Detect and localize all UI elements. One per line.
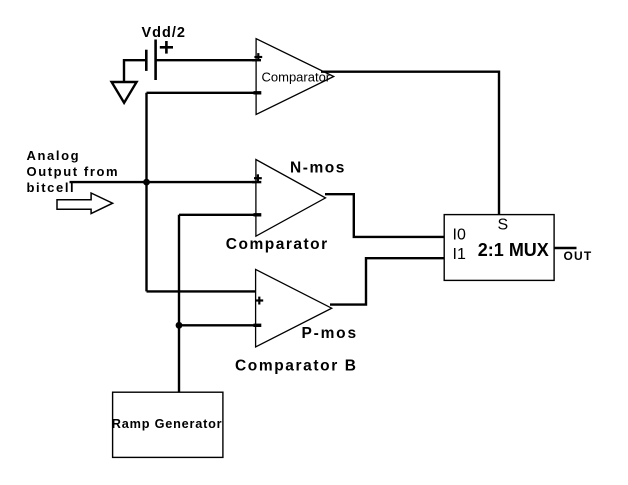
svg-text:Output from: Output from <box>27 164 120 179</box>
svg-text:bitcell: bitcell <box>27 180 76 195</box>
plus sign U2 input <box>254 174 262 182</box>
wire stub U2 plus input <box>252 181 261 183</box>
wire battery positive to comparator U1 plus input <box>156 59 261 61</box>
battery V1 <box>146 40 155 81</box>
svg-text:Comparator: Comparator <box>262 70 331 85</box>
wire left bus vertical <box>145 93 147 292</box>
input arrow symbol <box>57 193 113 214</box>
wire U2 output to MUX I0 <box>325 194 444 237</box>
ground <box>112 82 137 103</box>
svg-text:I0: I0 <box>453 226 466 243</box>
junction node bus2 / P-mos minus input <box>176 322 183 329</box>
wire left bus to U1 minus input <box>147 92 262 94</box>
wire stub U1 plus input <box>252 59 261 61</box>
wire bus2 to U3 minus input <box>179 324 261 326</box>
battery V1 positive sign <box>160 41 173 54</box>
svg-text:Analog: Analog <box>27 148 81 163</box>
svg-text:Vdd/2: Vdd/2 <box>142 25 186 41</box>
svg-text:S: S <box>498 217 509 234</box>
mux M1 2:1 MUX <box>444 215 554 281</box>
wire bus2 to U2 minus input <box>179 214 261 216</box>
svg-text:P-mos: P-mos <box>302 325 358 342</box>
plus sign U1 input <box>254 53 262 61</box>
ramp generator block <box>112 392 223 457</box>
wire bus2 vertical to ramp generator <box>178 215 180 392</box>
op-amp U2 N-mos comparator <box>226 159 346 253</box>
junction node analog input / left bus <box>143 179 150 186</box>
wire left bus to P-mos plus input <box>147 290 259 292</box>
wire MUX output <box>554 247 576 249</box>
minus tick U1 input <box>254 91 262 94</box>
wire U1 output to MUX select S <box>321 72 499 215</box>
wire U3 output to MUX I1 <box>330 258 444 304</box>
wire battery negative to ground <box>124 60 146 82</box>
svg-text:Comparator: Comparator <box>226 236 329 253</box>
label analog input <box>27 148 120 195</box>
svg-text:Ramp Generator: Ramp Generator <box>112 417 223 431</box>
op-amp U3 P-mos comparator <box>235 269 358 374</box>
svg-text:N-mos: N-mos <box>290 159 346 176</box>
wire analog input to N-mos plus input <box>70 181 262 183</box>
op-amp U1 top comparator <box>256 39 334 115</box>
minus tick U3 input <box>254 324 262 327</box>
svg-text:2:1 MUX: 2:1 MUX <box>478 240 549 260</box>
minus tick U2 input <box>254 213 262 216</box>
svg-text:OUT: OUT <box>564 249 593 263</box>
svg-text:Comparator B: Comparator B <box>235 358 358 375</box>
svg-text:I1: I1 <box>453 246 466 263</box>
plus sign U3 input <box>255 297 263 305</box>
